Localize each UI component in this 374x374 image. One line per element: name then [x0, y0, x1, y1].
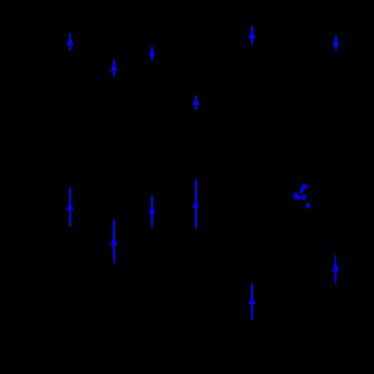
small spin arrow T3 (tiny cross pointing up) — [306, 203, 311, 209]
spin arrow S1 — [67, 33, 74, 51]
spin arrow S2 — [111, 60, 118, 77]
small tilted spin arrow T1 (staircase pointing NE with head nubs) — [300, 184, 308, 193]
spin arrow S12 — [332, 255, 339, 284]
spin arrow S3 — [148, 47, 155, 61]
spin arrow S9 — [192, 179, 199, 228]
spin arrow S10 — [110, 220, 117, 263]
spin arrow S4 — [248, 26, 255, 45]
spin arrow S5 — [332, 36, 339, 50]
spin arrow S11 — [249, 284, 256, 320]
spin arrow S7 — [66, 188, 73, 226]
spin arrow S8 — [148, 196, 155, 227]
spin arrow S6 — [192, 96, 199, 110]
small tilted spin arrow T2 (wavy bar pointing E with cross head) — [292, 193, 307, 201]
